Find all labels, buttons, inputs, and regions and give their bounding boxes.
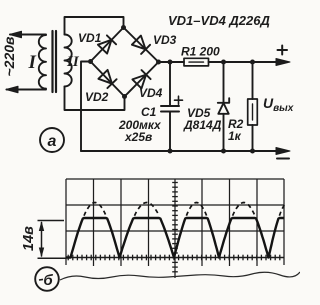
- minus sign: [277, 158, 289, 160]
- resistor R2 wires: [252, 62, 254, 151]
- capacitor C1 plus mark: [175, 96, 183, 104]
- svg-text:I: I: [28, 52, 37, 73]
- AC input wire bottom: [7, 89, 47, 91]
- dashed unregulated peak 5: [279, 205, 284, 216]
- zener diode VD5 wires: [223, 62, 225, 151]
- AC input arrow top: [10, 31, 22, 38]
- wire bridge minus down to negative rail: [81, 62, 91, 152]
- capacitor C1 plates: [161, 106, 179, 112]
- wire secondary bottom to bridge AC2: [65, 87, 125, 111]
- bridge plus node: [156, 60, 161, 65]
- transformer core: [53, 31, 57, 92]
- diode VD2: [98, 70, 112, 84]
- dashed unregulated peak 3: [186, 203, 206, 216]
- bridge minus node: [88, 59, 93, 64]
- capacitor C1 wires: [169, 62, 171, 151]
- diode VD3: [132, 36, 146, 50]
- resistor R1 inner mark: [189, 61, 204, 63]
- transformer T1 primary winding I: [39, 35, 46, 89]
- AC input wire top: [10, 34, 46, 36]
- resistor R2 inner mark: [252, 104, 254, 120]
- bridge diamond wires: [91, 28, 159, 97]
- diode VD1: [98, 40, 112, 54]
- VD5 bottom node: [221, 149, 226, 154]
- subfigure marker a: [40, 128, 64, 152]
- svg-text:а: а: [48, 133, 57, 150]
- svg-text:VD1–VD4 Д226Д: VD1–VD4 Д226Д: [168, 13, 270, 28]
- vertical axis ticks: [172, 183, 178, 272]
- zener diode VD5 triangle: [218, 103, 228, 114]
- svg-text:~220в: ~220в: [1, 36, 17, 77]
- R2 bottom node: [250, 149, 255, 154]
- svg-text:II: II: [66, 54, 80, 70]
- svg-text:VD2: VD2: [85, 90, 109, 104]
- subfigure marker b: [35, 267, 59, 291]
- negative output arrow: [276, 148, 290, 155]
- positive output arrow: [276, 59, 290, 66]
- resistor R1 body: [184, 58, 209, 66]
- dashed unregulated peak 2: [135, 203, 160, 216]
- positive rail wire R1 to output: [209, 61, 278, 63]
- bridge AC2 node: [122, 94, 127, 99]
- svg-text:C1: C1: [141, 105, 157, 119]
- transformer secondary winding II: [65, 35, 72, 87]
- svg-text:х25в: х25в: [124, 130, 152, 144]
- svg-text:1к: 1к: [228, 129, 242, 143]
- AC input arrow bottom: [6, 86, 18, 93]
- R2 top node: [250, 60, 255, 65]
- VD5 top node: [221, 60, 226, 65]
- dashed unregulated peak 1: [84, 203, 106, 216]
- dashed unregulated peak 4: [233, 203, 255, 216]
- wire secondary top to bridge AC1: [65, 17, 124, 35]
- svg-text:Д814Д: Д814Д: [183, 118, 222, 132]
- positive rail wire bridge to R1: [159, 61, 185, 63]
- zener diode VD5 cathode bar: [218, 98, 229, 103]
- oscilloscope grid: [66, 179, 284, 278]
- svg-text:VD1: VD1: [78, 31, 102, 45]
- torn paper edge: [60, 272, 300, 280]
- C1 bottom node: [168, 149, 173, 154]
- C1 top node: [168, 60, 173, 65]
- output voltage waveform (clipped): [66, 218, 284, 258]
- 14v dimension lines: [38, 221, 67, 259]
- negative rail wire: [81, 150, 277, 152]
- resistor R2 body: [248, 99, 258, 125]
- diode VD4: [132, 75, 146, 89]
- svg-text:б: б: [43, 272, 53, 289]
- bridge AC1 node: [121, 25, 126, 30]
- svg-text:VD4: VD4: [139, 86, 163, 100]
- svg-text:14в: 14в: [21, 226, 37, 251]
- plus sign: [278, 46, 288, 55]
- time axis with ticks: [66, 255, 284, 261]
- 14v dimension arrowheads: [39, 221, 44, 258]
- svg-text:R1 200: R1 200: [181, 45, 220, 59]
- svg-text:VD3: VD3: [153, 33, 177, 47]
